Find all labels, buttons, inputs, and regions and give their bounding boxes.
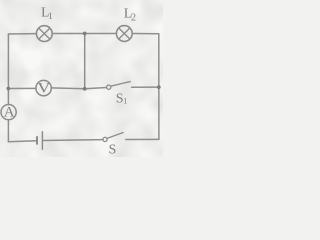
junction node right middle <box>157 85 161 89</box>
junction node left middle <box>6 87 10 91</box>
battery cell <box>37 131 42 150</box>
lamp L1 <box>36 26 52 42</box>
wire middle branch vertical (node to voltmeter rail) <box>84 34 86 89</box>
svg-text:1: 1 <box>48 12 53 22</box>
wire voltmeter to switch S1 <box>51 87 106 88</box>
voltmeter V <box>36 79 51 96</box>
svg-text:2: 2 <box>131 13 136 24</box>
wire middle rail left (left side to voltmeter) <box>8 87 36 89</box>
switch S <box>103 132 124 141</box>
junction node middle rail <box>83 87 87 91</box>
svg-text:S: S <box>109 143 117 157</box>
wire S to bottom-right corner <box>126 138 159 140</box>
wire left side upper (top corner to ammeter) <box>7 34 9 105</box>
svg-text:1: 1 <box>123 95 127 105</box>
label S1 <box>116 91 128 106</box>
lamp L2 <box>116 26 132 42</box>
wire top-left segment <box>8 33 36 35</box>
wire left side lower (ammeter to bottom corner) <box>7 120 9 142</box>
svg-text:A: A <box>4 104 15 120</box>
svg-text:V: V <box>37 79 50 96</box>
wire between L1 and L2 <box>52 33 116 35</box>
switch S1 <box>107 81 131 89</box>
label L1 <box>41 4 53 22</box>
wire right side <box>158 34 160 140</box>
junction node top (middle branch) <box>83 32 87 36</box>
wire after L2 to top-right corner <box>132 33 159 35</box>
wire S1 to right side <box>132 86 159 88</box>
wire bottom-left (corner to battery) <box>8 140 36 143</box>
wire battery to switch S <box>43 139 103 142</box>
ammeter A <box>1 104 16 120</box>
label L2 <box>124 6 136 23</box>
